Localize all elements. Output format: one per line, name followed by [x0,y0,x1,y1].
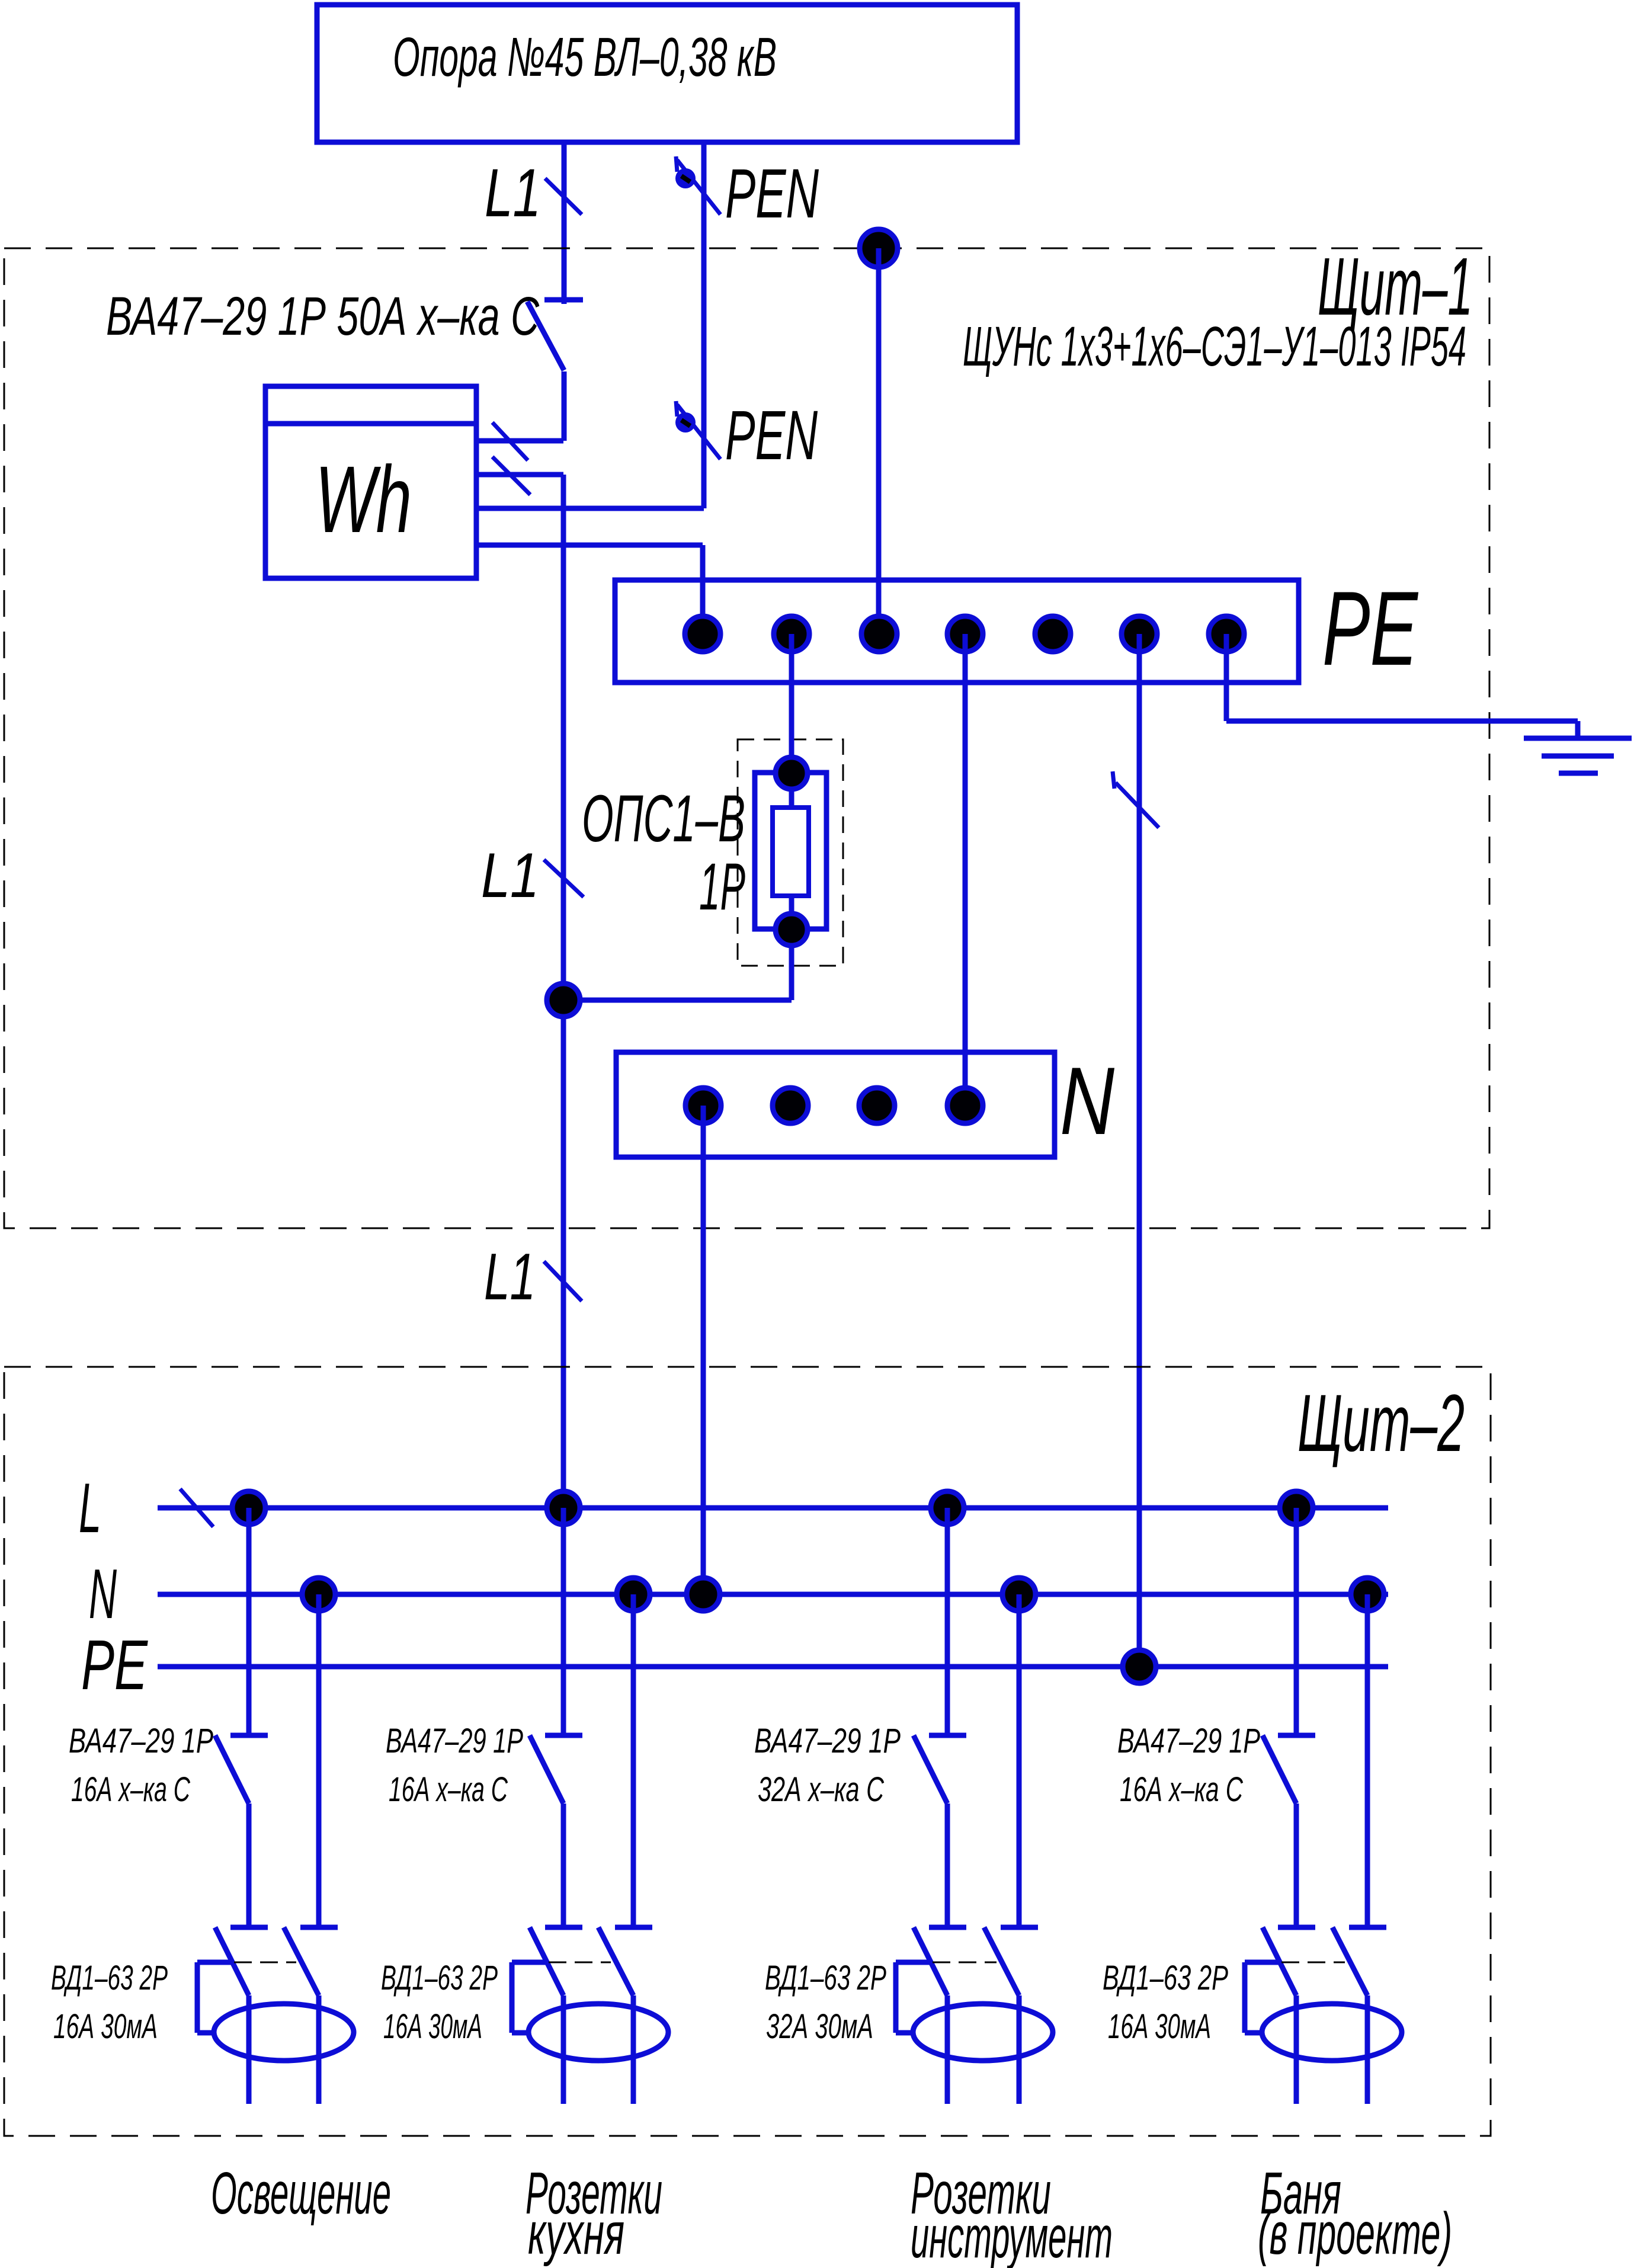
PE bus terminal 6 [1122,616,1157,652]
RCD branch 3 left pole contact bar [929,1925,966,1930]
svg-text:16А х–ка С: 16А х–ка С [1120,1770,1244,1809]
slash on terminal 1 stub [492,422,528,460]
meter terminal 4 stub (N out) [476,543,703,548]
wire N drop branch 3 [1017,1594,1022,1925]
breaker QF branch 4 contact bar [1278,1733,1315,1738]
breaker QF branch 2 blade [530,1735,563,1803]
wire breaker to RCD branch 1 [246,1803,252,1925]
single-line slash on L1 (middle) [544,860,584,897]
single-line slash on L1 (bottom) [544,1261,582,1301]
svg-text:PE: PE [81,1626,148,1705]
wire L drop branch 3 [945,1508,950,1733]
svg-text:PEN: PEN [725,396,818,475]
svg-text:L1: L1 [484,1240,536,1314]
node N bus feed [687,1578,720,1611]
RCD branch 2 linkage dashed [549,1962,611,1963]
node junction L1 / surge protector [547,984,580,1017]
meter terminal 3 stub (PEN in) [476,506,704,511]
svg-text:инструмент: инструмент [911,2204,1113,2268]
bus PE of Щит-2 [158,1664,1388,1670]
svg-text:Опора №45 ВЛ–0,38 кВ: Опора №45 ВЛ–0,38 кВ [393,26,777,88]
node PEN entry on panel border [860,229,898,267]
PE bus terminal 2 [774,616,809,652]
RCD branch 3 right blade [984,1927,1019,1995]
svg-text:PEN: PEN [725,155,819,233]
PE bus terminal 5 [1035,616,1071,652]
wire QF1 output to meter terminal 1 [562,371,567,441]
breaker QF branch 3 blade [914,1735,947,1803]
RCD branch 1 test bracket [197,1960,232,1965]
svg-text:(в проекте): (в проекте) [1258,2200,1452,2267]
surge protector top terminal [776,757,808,789]
wire breaker to RCD branch 4 [1294,1803,1299,1925]
RCD branch 1 right blade [284,1927,319,1995]
wire RCD branch 2 right pole out [631,1995,636,2104]
wire PE terminal 4 to N bus [963,634,968,1106]
svg-text:кухня: кухня [528,2200,624,2267]
svg-text:L: L [79,1469,101,1548]
wire surge protector to L1 [563,998,792,1003]
svg-text:L1: L1 [481,840,539,911]
RCD branch 3 linkage dashed [933,1962,997,1963]
svg-text:1Р: 1Р [699,850,745,924]
wire PE terminal 2 to surge protector [789,634,794,808]
RCD branch 1 linkage dashed [234,1962,296,1963]
RCD branch 3 left blade [914,1927,947,1995]
RCD branch 1 differential transformer [214,2004,354,2061]
wire RCD branch 3 right pole out [1017,1995,1022,2104]
breaker QF branch 3 contact bar [929,1733,966,1738]
RCD branch 4 left blade [1263,1927,1296,1995]
bus L of Щит-2 [158,1505,1388,1511]
svg-text:Wh: Wh [315,446,412,552]
RCD branch 4 right blade [1332,1927,1367,1995]
svg-text:16А х–ка С: 16А х–ка С [71,1770,191,1809]
N bus terminal 2 [773,1088,808,1123]
RCD branch 2 right blade [598,1927,633,1995]
svg-text:ВА47–29 1Р: ВА47–29 1Р [69,1722,213,1760]
hook-slash on PE down wire [1113,771,1114,789]
N bus bar box [616,1052,1055,1157]
svg-text:ОПС1–В: ОПС1–В [582,781,745,856]
single-line slash on L1 (top) [545,178,582,214]
svg-text:ВА47–29 1Р: ВА47–29 1Р [386,1722,523,1760]
svg-text:32А х–ка С: 32А х–ка С [758,1770,885,1809]
breaker QF branch 1 contact bar [230,1733,268,1738]
wire RCD branch 1 right pole out [316,1995,322,2104]
bolted joint symbol on PEN (lower) [675,401,720,459]
node N bus branch 4 [1351,1578,1384,1611]
wire breaker to RCD branch 2 [561,1803,566,1925]
RCD branch 4 test bracket [1245,1960,1280,1965]
wire L drop branch 1 [246,1508,252,1733]
wire RCD branch 3 left pole out [945,1995,950,2104]
slash on bus L [180,1489,213,1527]
wire PE terminal 7 to earth [1224,634,1229,721]
RCD branch 3 differential transformer [913,2004,1053,2061]
breaker QF branch 4 blade [1263,1735,1296,1803]
surge protector dashed outline [738,739,843,966]
earth ground symbol [1524,736,1632,741]
node L bus feed [547,1491,580,1524]
PE bus terminal 4 [947,616,983,652]
svg-text:ЩУНс 1х3+1х6–СЭ1–У1–013 IP54: ЩУНс 1х3+1х6–СЭ1–У1–013 IP54 [963,315,1466,378]
svg-text:Щит–2: Щит–2 [1297,1378,1465,1469]
PE bus terminal 7 [1209,616,1244,652]
svg-text:PE: PE [1322,569,1419,687]
wire PE terminal 6 down to Щит-2 PE [1137,634,1142,1667]
node PE bus feed [1123,1650,1156,1683]
N bus terminal 1 [685,1088,721,1123]
RCD branch 1 left blade [215,1927,249,1995]
wire RCD branch 4 left pole out [1294,1995,1299,2104]
node N bus branch 2 [617,1578,650,1611]
N bus terminal 3 [859,1088,895,1123]
wire RCD branch 1 left pole out [246,1995,252,2104]
surge protector ОПС1-В module outline [755,773,826,929]
wire N drop branch 2 [631,1594,636,1925]
junction box: Опора №45 ВЛ–0,38 кВ (pole of 0.38kV overhead line) [317,5,1017,142]
wire RCD branch 2 left pole out [561,1995,566,2104]
breaker QF1 fixed contact bar [544,297,583,303]
node N bus branch 3 [1002,1578,1036,1611]
wire N drop branch 4 [1365,1594,1370,1925]
N bus terminal 4 [947,1088,983,1123]
RCD branch 3 test bracket [896,1960,931,1965]
RCD branch 1 left pole contact bar [230,1925,268,1930]
svg-text:16А х–ка С: 16А х–ка С [389,1770,508,1809]
RCD branch 4 linkage dashed [1281,1962,1345,1963]
wire PEN entry down to PE bus [876,248,882,634]
RCD branch 2 right pole contact bar [615,1925,652,1930]
node L bus branch 2 [547,1491,580,1524]
breaker QF1 blade [527,302,564,370]
svg-text:ВА47–29 1Р: ВА47–29 1Р [754,1722,901,1760]
wire L1 phase out down to Щит-2 [561,475,566,1508]
wire RCD branch 4 right pole out [1365,1995,1370,2104]
node L bus branch 1 [232,1491,265,1524]
wire N drop branch 1 [316,1594,322,1925]
svg-text:16А 30мА: 16А 30мА [1108,2007,1211,2046]
PE bus bar box [615,580,1299,683]
RCD branch 4 differential transformer [1262,2004,1402,2061]
svg-text:ВД1–63 2Р: ВД1–63 2Р [765,1959,886,1997]
varistor body [773,808,809,896]
wire L drop branch 2 [561,1508,566,1733]
svg-text:L1: L1 [485,155,541,231]
svg-text:ВД1–63 2Р: ВД1–63 2Р [381,1959,498,1997]
PE bus terminal 3 [861,616,897,652]
meter terminal 2 stub (phase out) [476,472,563,478]
PE bus terminal 1 [685,616,720,652]
svg-text:N: N [89,1555,117,1633]
RCD branch 4 right pole contact bar [1349,1925,1386,1930]
RCD branch 2 left blade [530,1927,563,1995]
wire L1 from pole to breaker QF1 [562,142,567,304]
wire N bus to Щит-2 [701,1106,706,1594]
node N bus branch 1 [302,1578,335,1611]
svg-text:32А 30мА: 32А 30мА [766,2007,873,2046]
wire PEN from pole down to meter terminal 3 [701,142,707,508]
RCD branch 2 test bracket [512,1960,547,1965]
svg-text:ВА47–29 1Р: ВА47–29 1Р [1117,1722,1260,1760]
RCD branch 1 right pole contact bar [300,1925,338,1930]
bus N of Щит-2 [158,1592,1388,1597]
panel Щит-1 dashed enclosure [4,248,1489,1228]
wire varistor to bottom terminal [789,896,794,1000]
slash on terminal 2 stub [492,457,530,495]
wire breaker to RCD branch 3 [945,1803,950,1925]
node L bus branch 3 [931,1491,964,1524]
svg-text:16А 30мА: 16А 30мА [53,2007,158,2046]
svg-text:Освещение: Освещение [211,2160,391,2227]
RCD branch 4 left pole contact bar [1278,1925,1315,1930]
surge protector bottom terminal [776,914,808,946]
breaker QF branch 2 contact bar [545,1733,582,1738]
svg-text:ВА47–29 1Р 50А х–ка С: ВА47–29 1Р 50А х–ка С [106,286,539,347]
RCD branch 2 left pole contact bar [545,1925,582,1930]
svg-text:ВД1–63 2Р: ВД1–63 2Р [51,1959,168,1997]
bolted joint symbol on PEN (top) [675,156,720,214]
electric meter Wh box [265,386,476,578]
svg-text:N: N [1060,1047,1115,1155]
wire from terminal 4 to PE bus [700,545,706,634]
node L bus branch 4 [1280,1491,1313,1524]
RCD branch 3 right pole contact bar [1001,1925,1038,1930]
panel Щит-2 dashed enclosure [4,1367,1491,2136]
meter terminal 1 stub [476,438,563,444]
RCD branch 2 differential transformer [528,2004,668,2061]
wire L drop branch 4 [1294,1508,1299,1733]
svg-text:ВД1–63 2Р: ВД1–63 2Р [1103,1959,1228,1997]
breaker QF branch 1 blade [215,1735,249,1803]
svg-text:16А 30мА: 16А 30мА [383,2007,482,2046]
